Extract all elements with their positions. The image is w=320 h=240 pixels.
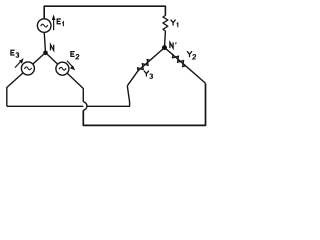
label N'	[170, 42, 173, 48]
label E3	[10, 50, 14, 56]
wire: top bus from E1 branch to Y1 branch	[44, 6, 165, 19]
label Y2	[187, 51, 192, 57]
resistor Y1 zigzag	[163, 16, 168, 31]
label Y3	[144, 71, 149, 77]
source E1 sine symbol	[41, 24, 48, 27]
source E2 circle	[56, 62, 69, 75]
source E1 circle	[37, 19, 51, 33]
wire: bottom bus E3 to Y3 at y=106.3	[7, 86, 130, 107]
label E1	[57, 18, 61, 24]
wire: phase branch N to E3 to left corner	[7, 53, 46, 107]
node N' junction dot	[162, 45, 167, 50]
arrow E1 (EMF direction, up)	[53, 19, 55, 31]
label E2	[70, 51, 74, 57]
wire: Y2 branch diagonal from N'	[165, 48, 206, 84]
source E2 sine symbol	[59, 67, 66, 70]
label Y1	[171, 20, 176, 26]
wire: E2 branch below hop to bottom bus	[83, 84, 205, 125]
arrow E2 (EMF direction, down-right)	[67, 61, 73, 67]
wire: phase branch N to E2 to corner	[46, 53, 84, 102]
arrow E3 (EMF direction, toward N)	[15, 60, 22, 67]
wire: Y1 branch below resistor to N'	[164, 31, 167, 48]
wire: E1 branch below source down to node N	[44, 32, 45, 52]
source E3 circle	[21, 62, 34, 75]
node N junction dot	[43, 51, 48, 56]
wire: Y3 branch diagonal from N'	[127, 48, 164, 86]
resistor Y3 zigzag	[138, 59, 151, 70]
wire: crossover hop of E2 branch over bottom bus	[83, 102, 87, 111]
resistor Y2 zigzag	[172, 55, 185, 67]
source E3 sine symbol	[25, 67, 32, 70]
label N	[51, 45, 54, 51]
